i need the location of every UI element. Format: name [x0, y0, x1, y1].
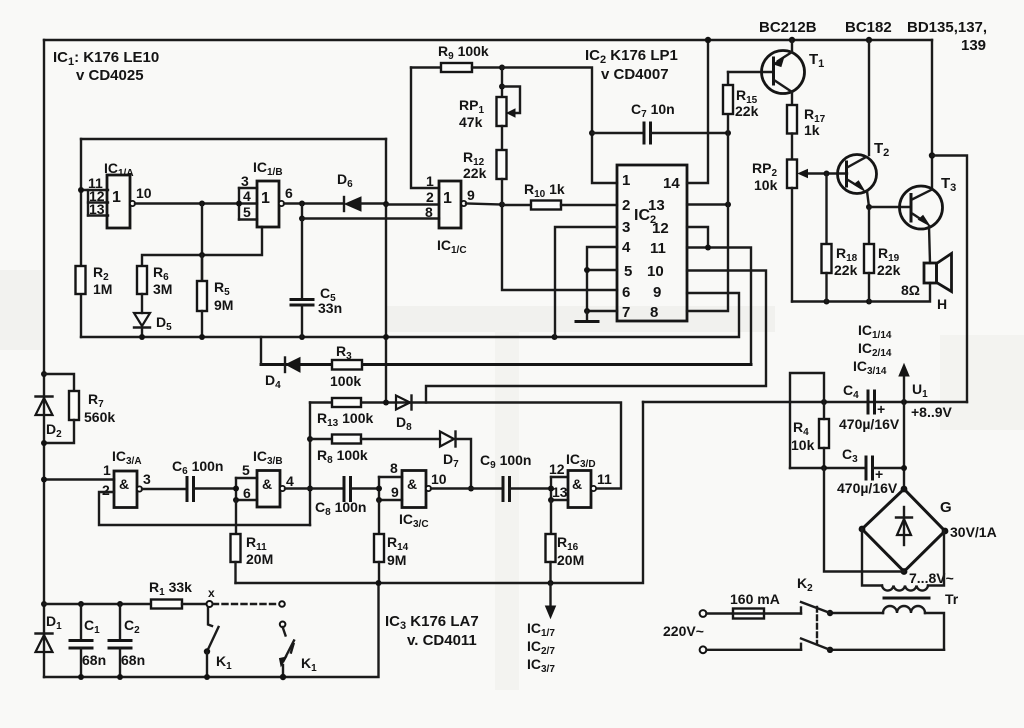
- svg-text:4: 4: [243, 188, 251, 204]
- wire: IC3/A pin2 feedback loop: [99, 492, 310, 525]
- bridge rectifier G: [901, 486, 908, 493]
- svg-text:Tr: Tr: [945, 591, 959, 607]
- gate IC3/C pin bracket: [379, 476, 402, 478]
- wire: dashed mechanical link K1: [213, 603, 278, 605]
- svg-text:560k: 560k: [84, 409, 115, 425]
- svg-text:10k: 10k: [754, 177, 778, 193]
- gate IC3/D: [568, 471, 591, 508]
- resistor R18: [825, 174, 827, 245]
- svg-text:9: 9: [391, 484, 399, 500]
- svg-text:1: 1: [443, 190, 452, 207]
- potentiometer RP2: [791, 134, 793, 160]
- svg-text:1k: 1k: [804, 122, 820, 138]
- transformer Tr primary: [883, 606, 925, 613]
- svg-text:5: 5: [242, 462, 250, 478]
- junction dots on mid rail: [139, 334, 145, 340]
- wire: vertical R13-R8-pin4 net: [309, 403, 311, 526]
- gate IC1/C: [439, 181, 461, 228]
- wire: branch down to C5: [301, 219, 303, 300]
- wire: oscillator top loop: [81, 138, 386, 140]
- svg-text:H: H: [937, 296, 947, 312]
- gate IC1/B: [257, 181, 279, 227]
- svg-text:6: 6: [285, 185, 293, 201]
- transformer core: [884, 597, 929, 600]
- wire: IC1/C out: [466, 204, 502, 205]
- wire: IC2 pin 11 to D4/R3 line: [687, 248, 751, 365]
- wire: positive top supply rail: [44, 39, 932, 41]
- diode D8: [396, 396, 410, 410]
- wire: R13/D8 line to IC3/D output: [310, 403, 621, 489]
- potentiometer RP1: [501, 68, 503, 98]
- wire: D4 left branch from mid rail: [260, 337, 262, 365]
- resistor R10: [502, 204, 531, 206]
- svg-text:10: 10: [136, 185, 152, 201]
- wire: R6/R5 top link: [142, 227, 262, 266]
- wire: lower mains return: [830, 649, 944, 651]
- wire: to IC1/C pin 2: [386, 203, 439, 205]
- wire: mid rail (IC2 pin 9 net): [81, 293, 739, 337]
- svg-text:11: 11: [650, 240, 666, 257]
- wire: IC1/A out to IC1/B in: [135, 202, 239, 204]
- wire: pulse line D1/C1/C2/R1: [44, 603, 151, 605]
- gate IC3/B: [257, 471, 280, 508]
- wire: resistor-common line R11/R14/R16: [236, 402, 644, 583]
- resistor R8: [310, 438, 332, 440]
- capacitor C9: [502, 478, 505, 501]
- resistor R2: [76, 266, 86, 294]
- capacitor C3: [790, 467, 866, 469]
- gate IC3/B pin bracket: [236, 477, 257, 479]
- switch K1 pole a: [207, 601, 213, 607]
- svg-text:470µ/16V: 470µ/16V: [839, 416, 900, 432]
- svg-text:+: +: [877, 401, 885, 417]
- node: IC1/A pin bracket: [81, 189, 108, 191]
- svg-text:3: 3: [622, 219, 630, 236]
- svg-text:9: 9: [467, 187, 475, 203]
- svg-text:470µ/16V: 470µ/16V: [837, 480, 898, 496]
- wire: RP2 bottom to emitter rail: [791, 188, 793, 302]
- svg-text:BD135,137,: BD135,137,: [907, 19, 987, 36]
- svg-text:4: 4: [286, 473, 294, 489]
- svg-text:11: 11: [597, 471, 612, 487]
- resistor R4: [819, 419, 829, 448]
- gate IC1/B pin bracket: [239, 187, 257, 189]
- capacitor C4: [867, 391, 870, 413]
- junction dot D6/pin2: [383, 201, 389, 207]
- svg-text:4: 4: [622, 239, 631, 256]
- gate IC1/A output bubble: [130, 201, 135, 206]
- svg-text:220V~: 220V~: [663, 623, 704, 639]
- svg-text:47k: 47k: [459, 114, 483, 130]
- svg-text:8Ω: 8Ω: [901, 282, 920, 298]
- svg-text:13: 13: [648, 197, 665, 214]
- wire: IC2 pin 3 to mid rail: [555, 227, 617, 337]
- wire: IC2 pin 12 to pin 11: [687, 227, 708, 248]
- svg-text:5: 5: [624, 263, 632, 280]
- svg-text:22k: 22k: [834, 262, 858, 278]
- resistor R1: [151, 600, 182, 609]
- diode D5: [141, 294, 143, 313]
- svg-text:6: 6: [622, 284, 630, 301]
- svg-text:8: 8: [650, 304, 658, 321]
- svg-text:2: 2: [622, 197, 630, 214]
- diode D1: [41, 601, 47, 607]
- svg-text:1: 1: [112, 189, 121, 206]
- svg-text:&: &: [262, 476, 272, 492]
- svg-text:9: 9: [653, 284, 661, 301]
- svg-text:13: 13: [552, 484, 568, 500]
- transistor T2: [866, 37, 872, 43]
- gate IC3/C: [402, 471, 426, 508]
- svg-text:33n: 33n: [318, 300, 342, 316]
- wire: IC2 pin 14 from top rail: [687, 40, 708, 183]
- svg-text:x: x: [208, 586, 215, 600]
- diode D4: [284, 358, 286, 373]
- capacitor C7: [589, 130, 595, 136]
- wire: R15 top to T1 base: [728, 71, 774, 73]
- svg-text:12: 12: [549, 461, 565, 477]
- wire: vertical from top loop through D6 node down to R13: [385, 139, 387, 403]
- wire: IC1/B out to D6: [284, 202, 344, 204]
- wire: bottom rail: [44, 583, 379, 677]
- wire: left ground rail: [43, 40, 45, 677]
- diode D7: [440, 432, 454, 447]
- svg-text:8: 8: [390, 460, 398, 476]
- resistor R6: [137, 266, 147, 294]
- wire: left vertical to IC1/A pins and R2: [80, 139, 82, 266]
- resistor R14: [378, 500, 380, 534]
- fuse 160mA: [700, 610, 707, 617]
- svg-text:6: 6: [243, 485, 251, 501]
- svg-text:20M: 20M: [246, 551, 273, 567]
- wire: down and to IC2 pin 6: [502, 205, 617, 291]
- wire: input to IC3/A pin 1: [44, 478, 114, 480]
- junction dot pin11: [78, 187, 84, 193]
- svg-text:7: 7: [622, 304, 630, 321]
- capacitor C8: [343, 478, 346, 501]
- arrow / node U1: [903, 374, 905, 489]
- wire: T2 emitter to T3 base: [869, 206, 911, 208]
- resistor R15: [727, 72, 729, 85]
- svg-text:22k: 22k: [735, 103, 759, 119]
- svg-text:139: 139: [961, 37, 986, 54]
- svg-text:10k: 10k: [791, 437, 815, 453]
- svg-text:5: 5: [243, 204, 251, 220]
- transistor T3: [931, 40, 933, 189]
- capacitor C1: [80, 604, 82, 640]
- svg-text:10: 10: [431, 471, 447, 487]
- wire: IC2 pin 10 to D8 net: [426, 271, 766, 403]
- loudspeaker H: [924, 263, 937, 283]
- resistor R12: [501, 126, 503, 150]
- switch K2: [827, 610, 833, 616]
- svg-text:7...8V~: 7...8V~: [909, 570, 954, 586]
- svg-text:9M: 9M: [214, 297, 233, 313]
- wire: D4/R3 line (thick): [261, 363, 751, 366]
- capacitor C2: [119, 604, 121, 640]
- svg-text:3: 3: [241, 173, 249, 189]
- transistor T1: [789, 37, 795, 43]
- wire: U1 supply line: [643, 401, 967, 403]
- svg-text:v. CD4011: v. CD4011: [407, 632, 477, 649]
- svg-text:13: 13: [89, 201, 105, 217]
- ground symbol below IC2 pin 7: [586, 311, 588, 321]
- svg-text:20M: 20M: [557, 552, 584, 568]
- wire: amplifier lower rail: [792, 283, 930, 302]
- svg-text:160 mA: 160 mA: [730, 591, 780, 607]
- wire: R9 to C7 node: [502, 68, 617, 184]
- op gate IC1/A: [107, 175, 130, 228]
- svg-text:2: 2: [102, 482, 110, 498]
- resistor R5: [201, 255, 203, 281]
- svg-text:1: 1: [622, 172, 630, 189]
- diode D2: [41, 371, 47, 377]
- svg-text:68n: 68n: [121, 652, 145, 668]
- capacitor C5: [291, 298, 313, 301]
- svg-text:IC3 K176 LA7: IC3 K176 LA7: [385, 613, 479, 632]
- wire: supply branch to U1: [932, 156, 967, 403]
- svg-text:14: 14: [663, 175, 680, 192]
- svg-text:BC212B: BC212B: [759, 19, 817, 36]
- svg-text:30V/1A: 30V/1A: [950, 524, 997, 540]
- svg-text:&: &: [572, 476, 582, 492]
- wire: DC minus from C3 node to bridge bottom: [824, 468, 904, 572]
- resistor R9: [411, 66, 441, 68]
- wire: IC3/C out to C9: [431, 487, 503, 489]
- wire: IC3/B out to C8: [285, 487, 344, 489]
- resistor R16: [550, 500, 552, 534]
- svg-text:68n: 68n: [82, 652, 106, 668]
- arrow: to IC x/7 pins: [549, 583, 551, 608]
- svg-text:1: 1: [103, 462, 111, 478]
- transformer Tr secondary: [862, 529, 882, 586]
- gate IC3/D pin bracket: [551, 476, 568, 478]
- wire: IC2 pins 4,5,7 common: [587, 247, 617, 311]
- IC2 chip body: [617, 165, 687, 321]
- svg-text:1: 1: [426, 173, 434, 189]
- wire: R2 bottom to rail: [80, 294, 82, 337]
- svg-text:v CD4007: v CD4007: [601, 66, 669, 83]
- svg-text:1M: 1M: [93, 281, 112, 297]
- wire: branch down to R5: [201, 204, 203, 282]
- wire: branch to pin8 of IC1/C: [301, 204, 303, 219]
- svg-text:8: 8: [425, 204, 433, 220]
- resistor R11: [235, 500, 237, 534]
- svg-text:22k: 22k: [463, 165, 487, 181]
- wire: IC1/C pin 1 from R9: [411, 68, 439, 189]
- svg-text:G: G: [940, 499, 952, 516]
- hook wire from C3 line to R4 top: [790, 373, 824, 468]
- diode D6: [343, 197, 345, 211]
- junction dot: [199, 201, 205, 207]
- svg-text:IC2 K176 LP1: IC2 K176 LP1: [585, 47, 678, 66]
- wire: IC2 pin 13 / pin 8 / R15 / C7 net: [687, 203, 728, 205]
- svg-text:+8..9V: +8..9V: [911, 404, 953, 420]
- svg-text:v CD4025: v CD4025: [76, 67, 144, 84]
- capacitor C6: [186, 478, 189, 501]
- svg-text:&: &: [407, 476, 417, 492]
- svg-text:100k: 100k: [330, 373, 361, 389]
- resistor R3: [332, 360, 362, 370]
- svg-text:10: 10: [647, 263, 664, 280]
- svg-text:2: 2: [426, 189, 434, 205]
- gate IC3/A: [114, 471, 137, 508]
- wire: IC3/A out to C6: [142, 488, 187, 490]
- junction dot R5 top: [199, 252, 205, 258]
- svg-text:BC182: BC182: [845, 19, 892, 36]
- resistor R17: [787, 105, 797, 134]
- svg-text:3M: 3M: [153, 281, 172, 297]
- switch K1 pole b: [279, 601, 285, 607]
- resistor R7: [44, 374, 74, 391]
- svg-text:1: 1: [261, 190, 270, 207]
- svg-text:9M: 9M: [387, 552, 406, 568]
- resistor R19: [868, 207, 870, 244]
- svg-text:3: 3: [143, 471, 151, 487]
- svg-text:22k: 22k: [877, 262, 901, 278]
- resistor R13: [332, 398, 361, 407]
- scan shading artifacts: [0, 270, 1024, 690]
- svg-text:&: &: [119, 476, 129, 492]
